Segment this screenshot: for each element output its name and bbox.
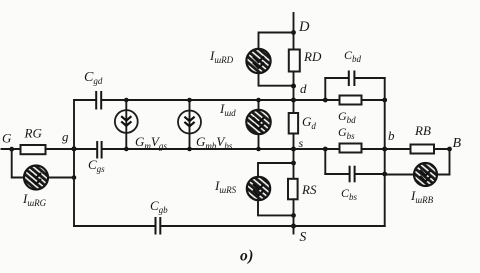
wire: I_nRS bottom branch [258,200,294,215]
wire: top row [74,99,96,101]
wire: G_bd to b column [362,99,385,101]
wire: left column g [73,100,75,226]
wire: I_nRD top branch [259,33,294,50]
node s [291,147,296,152]
noise source I_nRB [414,163,437,186]
wire: bottom rail left [74,225,155,227]
wire: I_nRG to g column [47,177,74,179]
wire: top row to G_bd [294,99,340,101]
resistor G_bs [340,144,362,153]
wire: middle row G to RG [2,148,21,150]
resistor G_bd [340,96,362,105]
wire: I_nRD bottom branch [259,73,294,86]
node b [382,147,387,152]
wire: middle row C_gs to s [102,148,294,150]
noise source I_nRS [247,177,270,200]
wire: C_bd row left [325,77,348,79]
node B [447,147,452,152]
wire: top row C_gd to center column [101,99,293,101]
wire: G stub down [12,149,25,178]
wire: I_nRB to B corner [437,149,450,175]
wire: C_bd row right [355,77,385,79]
wire: C_bs row left [325,173,349,175]
capacitor C_bs [350,166,355,183]
capacitor C_gd [96,91,101,110]
svg-text:d: d [300,81,307,96]
svg-text:D: D [298,19,310,35]
node g [72,146,77,151]
wire: middle row s to G_bs [294,148,340,150]
resistor RB [411,145,435,154]
resistor RD [289,50,300,72]
node junction I_nRS top [291,161,296,166]
capacitor C_bd [349,71,355,87]
wire: RB to B [434,148,450,150]
resistor G_d [289,113,298,134]
node junction b column top row [382,98,387,103]
wire: C_bs row to b column [355,173,385,175]
wire: G_bs to b [362,148,385,150]
resistor RG [21,145,46,154]
svg-text:S: S [300,229,307,244]
capacitor C_gb [156,217,161,235]
node junction lower bus [323,147,328,152]
svg-text:b: b [388,128,395,143]
node at g column / I_nRG [72,175,77,180]
node junction I_nRS bottom [291,213,296,218]
wire: RS to S terminal [293,199,295,233]
wire: bottom rail right [161,225,385,227]
svg-text:B: B [453,136,462,151]
node junction I_nRD top [291,30,296,35]
current source G_mb V_bs [178,98,201,152]
svg-text:RD: RD [303,49,322,64]
node G terminal dot [9,147,14,152]
resistor RS [288,179,298,200]
wire: D terminal stub [293,13,295,50]
svg-text:RG: RG [24,126,43,141]
current source G_m V_gs [115,98,138,152]
wire: G_d to s area [293,134,295,180]
wire: RG to C_gs [46,148,96,150]
noise source I_nd [246,98,270,152]
svg-text:s: s [299,136,304,150]
wire: lower bus [324,149,326,174]
node junction upper bus [323,98,328,103]
svg-text:G: G [2,131,12,146]
wire: I_nRS top branch [258,163,294,177]
svg-text:g: g [62,129,69,144]
wire: upper bus [324,78,326,100]
node junction top row / column [291,98,296,103]
node junction b column C_bs [382,172,387,177]
wire: middle row b to RB [385,148,411,150]
capacitor C_gs [97,141,101,159]
svg-text:RS: RS [301,182,317,197]
svg-text:о): о) [240,248,254,265]
wire: RD to d and G_d [293,72,295,114]
wire: b column [384,78,386,226]
node d [291,84,296,89]
noise source I_nRG [24,166,48,190]
noise source I_nRD [246,49,270,73]
node junction column / bottom rail [291,224,296,229]
wire: I_nRB branch from b column [385,174,414,176]
svg-text:RB: RB [414,123,431,138]
